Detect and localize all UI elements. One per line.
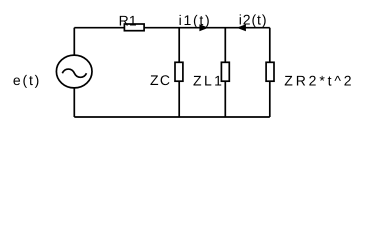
resistor R1 body xyxy=(124,24,144,31)
svg-text:ZL1: ZL1 xyxy=(193,73,224,89)
wire: left vertical below source xyxy=(73,88,75,117)
voltage source e(t) circle xyxy=(56,55,92,88)
current arrow i2(t) pointing left xyxy=(237,24,246,31)
impedance ZC body xyxy=(175,62,183,81)
current arrow i1(t) pointing right xyxy=(199,24,208,31)
impedance ZR2 body xyxy=(266,62,274,81)
wire: ZR2 branch vertical xyxy=(269,28,271,117)
wire: ZC branch vertical xyxy=(178,28,180,117)
svg-text:e(t): e(t) xyxy=(13,72,41,88)
wire: ZL1 branch vertical xyxy=(224,28,226,117)
wire: bottom horizontal return xyxy=(74,116,269,118)
svg-text:ZR2*t^2: ZR2*t^2 xyxy=(284,73,354,89)
svg-text:i2(t): i2(t) xyxy=(239,12,268,28)
svg-text:ZC: ZC xyxy=(150,72,171,88)
svg-text:i1(t): i1(t) xyxy=(179,12,212,28)
wire: top horizontal from source to right branch xyxy=(74,27,269,29)
svg-text:R1: R1 xyxy=(119,13,137,29)
impedance ZL1 body xyxy=(221,62,229,81)
voltage source sine wave xyxy=(62,69,86,77)
wire: left vertical above source xyxy=(73,28,75,56)
